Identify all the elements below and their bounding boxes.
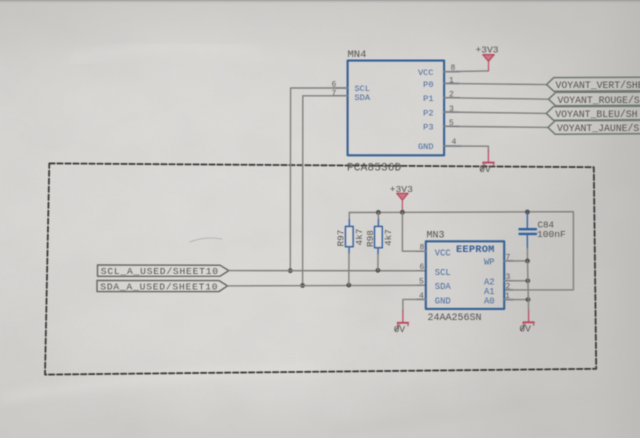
svg-text:R98: R98	[365, 230, 376, 247]
junction rail R98	[376, 210, 381, 215]
svg-text:SCL: SCL	[435, 268, 451, 278]
wire +3V3 rail	[349, 212, 573, 290]
resistor R97	[336, 213, 366, 286]
IC MN4 body	[348, 61, 445, 156]
wire MN3 pin1 A0 to column	[504, 299, 528, 301]
wire MN4 pin6 SCL to SCL net	[290, 88, 347, 271]
svg-text:100nF: 100nF	[537, 229, 566, 240]
svg-text:P3: P3	[423, 123, 433, 133]
wire C84 column to ground	[528, 261, 529, 312]
net label VOYANT_VERT/SHE	[547, 77, 640, 91]
capacitor C84	[520, 212, 567, 261]
wire MN4 pin5 P3 to VOYANT_JAUNE flag	[444, 126, 548, 127]
dashed sheet boundary	[45, 163, 596, 374]
wire MN4 pin7 SDA to SDA net	[303, 96, 348, 286]
ground 0V below MN3 GND	[394, 311, 409, 335]
ground 0V below C84 column	[519, 311, 534, 335]
wire MN4 pin4 GND down	[444, 146, 488, 151]
svg-text:P1: P1	[423, 94, 433, 104]
svg-text:A0: A0	[484, 296, 495, 306]
svg-text:24AA256SN: 24AA256SN	[428, 313, 482, 324]
power +3V3 top	[476, 45, 499, 71]
svg-text:VCC: VCC	[418, 68, 433, 78]
net label VOYANT_BLEU/SH	[546, 106, 640, 120]
wire MN4 pin8 VCC to +3V3	[444, 70, 488, 73]
net label VOYANT_JAUNE/S	[548, 120, 640, 134]
svg-text:SDA_A_USED/SHEET10: SDA_A_USED/SHEET10	[100, 282, 218, 293]
svg-text:4k7: 4k7	[383, 229, 394, 246]
junction WP column	[525, 259, 530, 264]
svg-text:P0: P0	[423, 80, 433, 90]
net label SDA_A_USED/SHEET10	[97, 281, 228, 293]
svg-text:VOYANT_BLEU/SH: VOYANT_BLEU/SH	[555, 109, 637, 120]
wire MN4 pin3 P2 to VOYANT_BLEU flag	[444, 112, 546, 113]
junction rail C84 top	[525, 210, 530, 215]
IC MN3 body	[426, 241, 504, 309]
svg-text:MN4: MN4	[348, 49, 367, 61]
svg-text:A1: A1	[484, 287, 495, 297]
svg-text:PCA8536D: PCA8536D	[347, 162, 402, 174]
svg-text:SCL_A_USED/SHEET10: SCL_A_USED/SHEET10	[101, 266, 219, 277]
svg-text:WP: WP	[484, 258, 495, 268]
svg-text:SDA: SDA	[435, 282, 452, 292]
svg-text:R97: R97	[336, 230, 347, 247]
MN3 pin stubs (blue)	[417, 251, 513, 299]
junction SCL vertical	[288, 268, 293, 273]
wire +3V3 rail down to MN3 VCC pin8	[402, 212, 425, 251]
svg-text:VOYANT_VERT/SHE: VOYANT_VERT/SHE	[556, 80, 640, 91]
svg-text:GND: GND	[435, 296, 451, 306]
svg-text:VOYANT_JAUNE/S: VOYANT_JAUNE/S	[557, 123, 639, 134]
svg-text:VOYANT_ROUGE/S: VOYANT_ROUGE/S	[558, 95, 640, 106]
wire MN3 pin7 WP to C84 column	[504, 260, 527, 262]
svg-text:2: 2	[506, 283, 511, 292]
svg-text:+3V3: +3V3	[390, 184, 413, 195]
svg-text:7: 7	[332, 89, 337, 98]
svg-text:EEPROM: EEPROM	[456, 244, 495, 256]
junction SDA vertical	[300, 283, 305, 288]
wire MN3 pin4 GND down	[403, 299, 426, 311]
svg-text:6: 6	[420, 263, 425, 272]
junction A0 column	[526, 297, 531, 302]
ground 0V below MN4	[479, 151, 494, 175]
wire MN4 pin2 P1 to VOYANT_ROUGE flag	[444, 98, 548, 100]
paper crease mark	[190, 238, 222, 242]
svg-text:+3V3: +3V3	[476, 45, 499, 56]
svg-text:VCC: VCC	[435, 249, 451, 259]
svg-text:SDA: SDA	[355, 93, 371, 103]
wire SCL net to MN3 pin6	[229, 270, 426, 272]
MN4 pin stubs (blue)	[333, 72, 461, 147]
net label SCL_A_USED/SHEET10	[98, 265, 229, 277]
svg-text:P2: P2	[423, 108, 433, 118]
junction R97 bottom on SDA	[346, 283, 351, 288]
wire MN3 pin3 A2 to column	[504, 280, 528, 282]
resistor R98	[365, 212, 394, 270]
junction A2 column	[525, 278, 530, 283]
junction R98 bottom on SCL	[376, 268, 381, 273]
junction rail +3V3 stub	[400, 210, 405, 215]
power +3V3 above rail	[390, 184, 413, 212]
svg-text:GND: GND	[418, 142, 433, 152]
svg-text:5: 5	[419, 278, 424, 287]
net label VOYANT_ROUGE/S	[549, 92, 640, 106]
svg-text:MN3: MN3	[427, 231, 445, 242]
wire MN4 pin1 P0 to VOYANT_VERT flag	[444, 83, 546, 84]
svg-text:4k7: 4k7	[354, 229, 365, 246]
wire SDA net to MN3 pin5	[228, 284, 426, 287]
